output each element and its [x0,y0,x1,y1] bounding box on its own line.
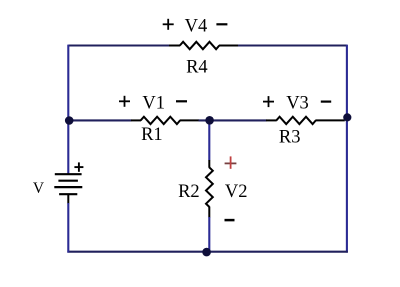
resistor R3 right lead [315,119,344,121]
label + of V3 [263,96,274,107]
resistor R3 left lead [266,119,277,121]
resistor R2 top lead [208,160,210,168]
resistor R4 [180,42,220,49]
label - of V3 [321,100,331,102]
label - of V2 [225,219,235,222]
node bottom junction [202,248,211,257]
resistor R3 [276,117,316,124]
svg-text:R3: R3 [279,128,301,148]
resistor R4 right lead [219,45,239,47]
resistor R1 left lead [131,119,141,121]
label + of V2 red [225,156,237,168]
node left junction [65,116,74,125]
battery + polarity mark [74,162,83,171]
label + of V4 [163,19,174,30]
resistor R2 bottom lead [208,207,210,218]
svg-text:V1: V1 [142,94,165,114]
label + of V1 [119,96,130,107]
svg-text:V4: V4 [185,16,208,36]
wire left vertical lower [67,203,69,253]
wire middle vertical lower [208,217,210,253]
battery V plates [54,174,82,194]
node middle junction [205,116,214,125]
resistor R2 [206,167,213,207]
resistor R1 [141,117,181,124]
wire middle center segment [199,119,267,121]
wire bottom [67,251,347,253]
wire middle left segment [68,119,131,121]
svg-text:R4: R4 [186,57,208,77]
label - of V4 [216,23,227,25]
svg-text:R1: R1 [141,125,163,145]
svg-text:V3: V3 [286,94,309,114]
resistor R1 right lead [180,119,199,121]
node right junction [343,113,351,121]
wire top-right segment [238,44,347,46]
svg-text:V: V [33,180,45,197]
wire right vertical [346,45,348,253]
wire left vertical upper [67,45,69,175]
label - of V1 [176,100,187,102]
resistor R4 left lead [169,45,180,47]
svg-text:V2: V2 [225,182,248,202]
wire top-left segment [68,44,169,46]
svg-text:R2: R2 [178,182,200,202]
battery bottom lead [67,194,69,203]
wire middle vertical upper [208,120,210,160]
